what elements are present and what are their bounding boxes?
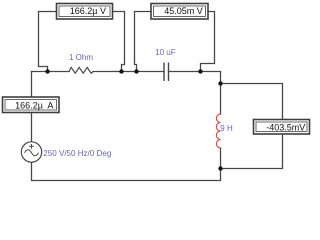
svg-text:45.05m V: 45.05m V [164,6,203,16]
wire capacitor right to corner down [169,72,221,84]
wire voltmeter U2 left lead [135,12,152,72]
resistor R1 zigzag [69,67,93,73]
capacitor C1 plates [164,63,169,82]
AC source V1 plus sign [29,144,34,149]
wire resistor right to capacitor [93,71,164,73]
node F junction dot [218,166,222,170]
voltmeter U1 box [57,4,113,20]
node C junction dot [134,69,138,73]
ammeter U3 box [3,97,60,113]
wire ammeter bottom to source top [31,113,33,142]
node B junction dot [119,69,123,73]
voltmeter U4 box [254,120,310,135]
svg-text:1 Ohm: 1 Ohm [69,53,93,62]
wire inductor bottom lead [220,148,222,169]
inductor L1 coil [216,114,220,148]
svg-text:166.2µ V: 166.2µ V [70,6,106,16]
node A junction dot [45,69,49,73]
wire bottom return to source [32,162,221,181]
wire voltmeter U1 right lead [113,12,125,72]
AC source V1 sine wave [25,150,39,156]
wire right branch to voltmeter U4 [221,84,283,120]
wire top left segment node A to resistor [32,71,70,73]
voltmeter U2 box [151,4,208,20]
svg-text:-403.5mV: -403.5mV [266,122,305,132]
wire voltmeter U4 bottom lead [221,134,283,169]
svg-text:9 H: 9 H [220,124,233,133]
wire inductor top lead [220,84,222,115]
svg-text:10 uF: 10 uF [155,48,176,57]
wire voltmeter U2 right lead [201,12,215,72]
node E junction dot [218,81,222,85]
wire voltmeter U1 left lead [39,12,57,72]
svg-text:166.2µ A: 166.2µ A [15,100,53,110]
AC source V1 circle [21,142,41,162]
svg-text:250 V/50 Hz/0 Deg: 250 V/50 Hz/0 Deg [43,149,111,158]
node D junction dot [198,69,202,73]
wire ammeter top lead [31,72,33,98]
